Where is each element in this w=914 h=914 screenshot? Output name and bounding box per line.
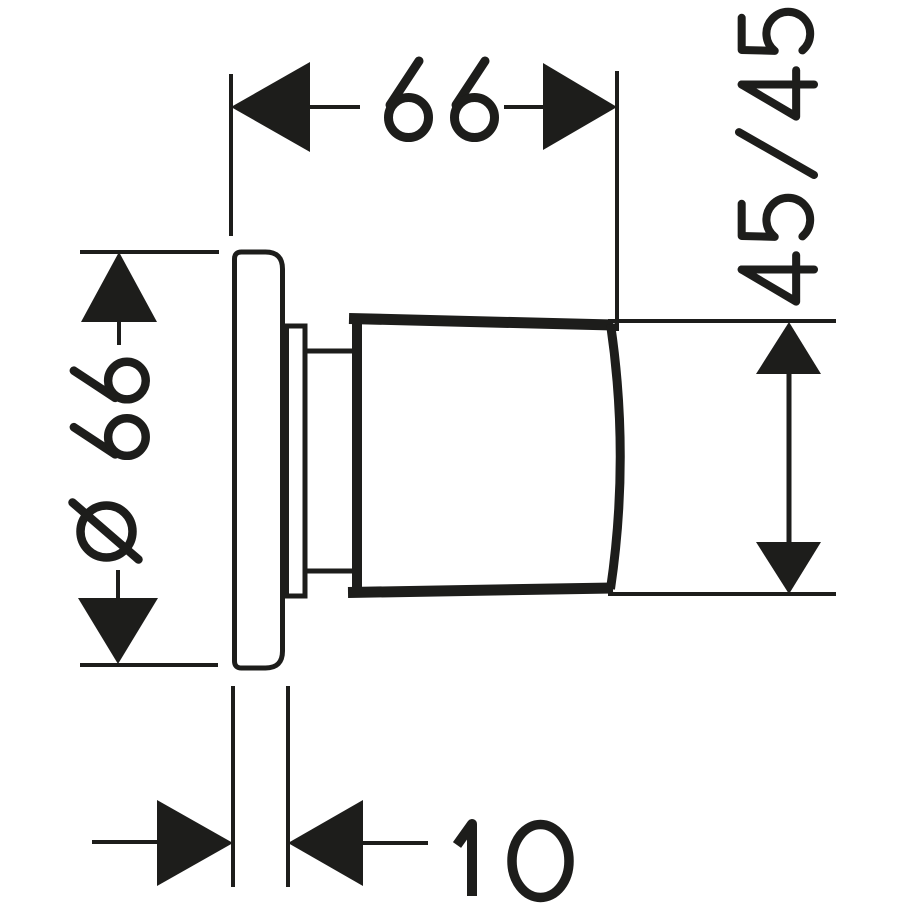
- dimension 10: right arrow: [288, 800, 363, 886]
- handle top edge: [349, 319, 613, 326]
- dimension Ø66: down arrow: [78, 598, 158, 664]
- dimension 45/45: shaft: [787, 374, 792, 542]
- handle bottom edge: [348, 588, 613, 593]
- escutcheon plate (side view): [235, 252, 283, 668]
- dimension 45/45: down arrow: [756, 542, 821, 594]
- dimension Ø66: lower shaft: [116, 570, 120, 598]
- dimension 10: left lead line: [92, 840, 157, 844]
- dimension 10: right extension line: [286, 686, 290, 887]
- dimension 66: right arrow: [543, 63, 617, 150]
- dimension 66: value label second digit 6: [455, 61, 495, 138]
- dimension Ø66: bottom extension line: [80, 663, 218, 667]
- dimension Ø66: upper shaft: [117, 322, 121, 345]
- dimension Ø66: value label: [73, 362, 146, 560]
- handle right edge (curved face): [611, 324, 621, 589]
- dimension 66: left extension line: [229, 74, 233, 236]
- neck bottom line: [305, 569, 357, 574]
- dimension 66: left shaft: [310, 105, 360, 109]
- dimension 66: right shaft: [504, 105, 545, 109]
- dimension 10: left arrow: [157, 800, 233, 886]
- dimension 66: value label digit 6: [389, 61, 429, 138]
- dimension 10: value label digit 1: [457, 824, 472, 896]
- handle left edge: [352, 315, 362, 596]
- dimension 10: left extension line: [231, 686, 235, 887]
- dimension Ø66: up arrow: [81, 252, 157, 322]
- dimension 45/45: up arrow: [756, 322, 821, 374]
- dimension 10: value label digit 0: [512, 825, 569, 898]
- dimension 66: left arrow: [231, 62, 310, 152]
- dimension 45/45: top extension line: [608, 319, 836, 323]
- dimension 45/45: bottom extension line: [608, 592, 836, 596]
- neck top line: [305, 349, 357, 354]
- sleeve (cartridge housing): [287, 326, 306, 596]
- dimension 45/45: value label: [739, 12, 814, 302]
- dimension Ø66: top extension line: [80, 250, 219, 254]
- dimension 10: right lead line: [363, 841, 428, 845]
- dimension 66: right extension line: [615, 71, 619, 331]
